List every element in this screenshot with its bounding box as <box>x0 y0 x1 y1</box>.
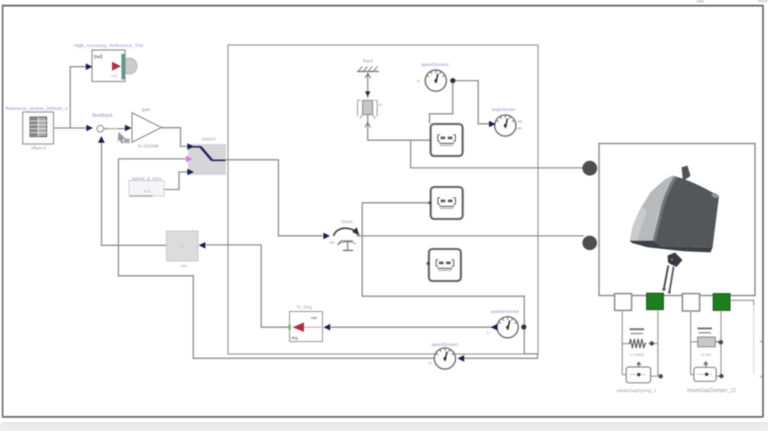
svg-text:rad: rad <box>517 120 522 124</box>
svg-text:elastoGapDamper_12: elastoGapDamper_12 <box>687 388 736 394</box>
svg-text:c=10000: c=10000 <box>630 353 644 357</box>
svg-text:s2w: s2w <box>180 263 187 268</box>
svg-text:s: s <box>487 331 489 335</box>
svg-text:d=: d= <box>379 103 383 107</box>
svg-text:tau: tau <box>330 241 335 245</box>
svg-text:High_Accuracy_Reference_7Hz: High_Accuracy_Reference_7Hz <box>74 43 144 49</box>
svg-text:w: w <box>417 79 420 83</box>
svg-text:elastoGapSpring_1: elastoGapSpring_1 <box>617 388 657 393</box>
svg-text:Reference_Motion_S00mm_s: Reference_Motion_S00mm_s <box>5 106 68 111</box>
svg-text:phi: phi <box>517 127 522 131</box>
svg-text:offset=0: offset=0 <box>31 145 47 150</box>
svg-text:[rad]: [rad] <box>94 54 102 59</box>
svg-text:k=1/1048: k=1/1048 <box>139 144 159 150</box>
svg-text:deg: deg <box>111 74 117 78</box>
svg-text:speedSensor: speedSensor <box>421 62 449 67</box>
svg-text:k=0: k=0 <box>144 188 151 193</box>
svg-text:feedback: feedback <box>92 113 113 119</box>
svg-text:d=100: d=100 <box>701 353 711 357</box>
svg-text:>: > <box>181 244 184 250</box>
svg-text:rad: rad <box>311 315 317 320</box>
svg-text:speed_d_zero: speed_d_zero <box>132 176 162 181</box>
svg-text:switch1: switch1 <box>202 137 217 142</box>
svg-text:deg: deg <box>291 335 298 340</box>
svg-text:To_Deg: To_Deg <box>296 305 312 310</box>
svg-text:speedSensor1: speedSensor1 <box>431 342 459 347</box>
svg-text:positionSensor: positionSensor <box>491 309 519 314</box>
svg-text:gain: gain <box>142 107 151 112</box>
svg-text:torque: torque <box>341 219 354 224</box>
svg-text:fixed: fixed <box>363 59 373 64</box>
svg-text:angleSensor: angleSensor <box>492 107 516 112</box>
